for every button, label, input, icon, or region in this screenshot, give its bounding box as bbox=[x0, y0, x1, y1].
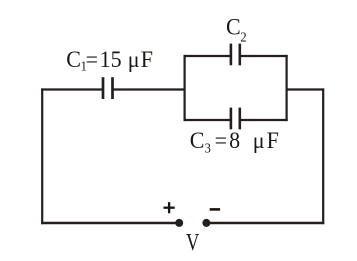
capacitor C1 bbox=[103, 77, 113, 99]
svg-text:μ: μ bbox=[253, 128, 265, 154]
label C1 value: C1=15 uF bbox=[66, 46, 153, 73]
svg-text:3: 3 bbox=[205, 140, 211, 155]
wire: left branch (top-left corner down to bottom-left corner) bbox=[41, 88, 43, 224]
svg-text:2: 2 bbox=[240, 29, 246, 44]
svg-text:C: C bbox=[226, 14, 241, 40]
node: parallel box left junction (left edge of C2/C3 loop) bbox=[184, 55, 186, 121]
wire: from box right junction to top-right corner bbox=[286, 88, 324, 90]
svg-text:μ: μ bbox=[128, 46, 140, 72]
svg-text:=: = bbox=[215, 128, 227, 154]
capacitor C2 bbox=[231, 44, 240, 66]
wire: from C1 right plate to parallel box left edge bbox=[114, 88, 186, 90]
svg-text:8: 8 bbox=[229, 128, 240, 154]
wire: box bottom edge left part to C3 bbox=[184, 119, 231, 121]
svg-text:C: C bbox=[190, 128, 205, 154]
node: - terminal dot of source V bbox=[202, 219, 210, 227]
wire: box bottom edge right part from C3 to right edge bbox=[240, 119, 288, 121]
wire: box top edge right part from C2 to right edge bbox=[240, 55, 288, 57]
wire: right branch down to bottom-right corner bbox=[322, 88, 324, 224]
label - polarity of source V bbox=[210, 208, 220, 211]
svg-text:F: F bbox=[141, 46, 153, 72]
svg-text:F: F bbox=[267, 128, 279, 154]
svg-text:15: 15 bbox=[100, 46, 122, 72]
label + polarity of source V bbox=[164, 202, 175, 213]
wire: top segment from left corner to C1 left plate bbox=[41, 88, 102, 90]
svg-text:=: = bbox=[86, 46, 98, 72]
label C3 value: C3 = 8 uF bbox=[190, 128, 279, 156]
label C2 bbox=[226, 14, 247, 45]
wire: box top edge left part to C2 bbox=[184, 55, 231, 57]
wire: bottom segment from left corner to + terminal of source V bbox=[41, 222, 179, 224]
node: + terminal dot of source V bbox=[175, 219, 183, 227]
wire: bottom segment from - terminal to bottom-right corner bbox=[207, 222, 324, 224]
node: parallel box right junction (right edge of C2/C3 loop) bbox=[286, 55, 288, 121]
capacitor C3 bbox=[231, 108, 240, 130]
label V (voltage source) bbox=[186, 228, 200, 255]
svg-text:C: C bbox=[66, 46, 81, 72]
svg-text:V: V bbox=[186, 228, 200, 255]
